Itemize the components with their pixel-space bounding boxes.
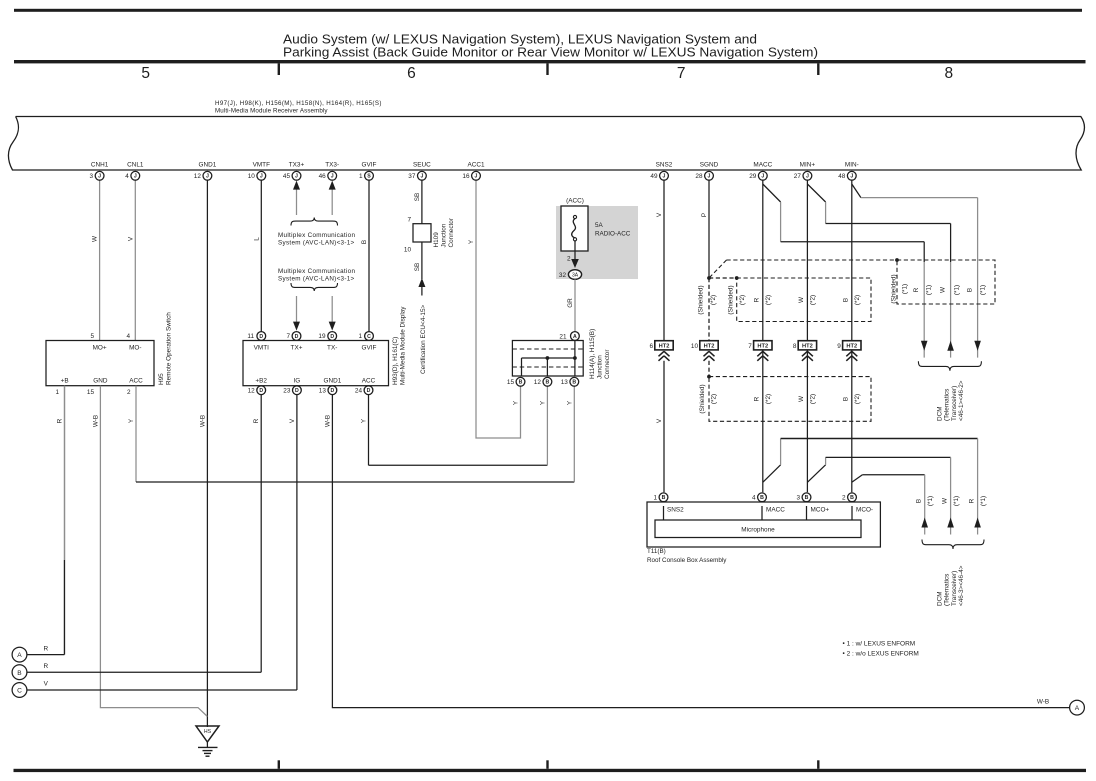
svg-text:SNS2: SNS2 bbox=[667, 507, 684, 514]
svg-text:B: B bbox=[805, 495, 809, 501]
svg-text:28: 28 bbox=[695, 173, 703, 180]
svg-text:(*1): (*1) bbox=[953, 496, 960, 506]
svg-text:MIN+: MIN+ bbox=[800, 162, 816, 169]
svg-text:(ACC): (ACC) bbox=[566, 198, 584, 205]
svg-text:TX3+: TX3+ bbox=[289, 162, 305, 169]
svg-text:System (AVC-LAN)<3-1>: System (AVC-LAN)<3-1> bbox=[278, 240, 355, 247]
svg-text:(*2): (*2) bbox=[739, 295, 746, 305]
svg-text:37: 37 bbox=[408, 173, 416, 180]
svg-text:24: 24 bbox=[355, 388, 363, 395]
svg-text:A: A bbox=[17, 652, 22, 659]
svg-text:B: B bbox=[843, 397, 850, 401]
svg-text:D: D bbox=[331, 388, 335, 394]
svg-text:Roof Console Box Assembly: Roof Console Box Assembly bbox=[647, 557, 727, 564]
svg-text:ACC: ACC bbox=[362, 378, 376, 385]
svg-text:D: D bbox=[259, 334, 263, 340]
svg-text:45: 45 bbox=[283, 173, 291, 180]
svg-text:W: W bbox=[942, 497, 949, 504]
svg-text:(*2): (*2) bbox=[810, 295, 817, 305]
svg-text:12: 12 bbox=[194, 173, 202, 180]
svg-text:J: J bbox=[663, 174, 666, 180]
svg-text:2: 2 bbox=[127, 389, 131, 396]
svg-text:GR: GR bbox=[567, 298, 574, 308]
svg-text:5A: 5A bbox=[595, 222, 604, 229]
svg-text:W: W bbox=[940, 286, 947, 293]
svg-text:D: D bbox=[330, 334, 334, 340]
svg-text:TX-: TX- bbox=[327, 345, 337, 352]
svg-text:(*2): (*2) bbox=[765, 394, 772, 404]
svg-text:(Telematics: (Telematics bbox=[944, 574, 951, 606]
svg-text:(*2): (*2) bbox=[854, 394, 861, 404]
svg-text:J: J bbox=[206, 174, 209, 180]
svg-text:Multiplex Communication: Multiplex Communication bbox=[278, 232, 355, 239]
svg-text:SNS2: SNS2 bbox=[656, 162, 673, 169]
svg-text:D: D bbox=[367, 388, 371, 394]
svg-text:V: V bbox=[289, 418, 296, 423]
svg-text:(*2): (*2) bbox=[765, 295, 772, 305]
svg-text:8: 8 bbox=[944, 65, 953, 82]
svg-text:Y: Y bbox=[539, 400, 546, 405]
svg-text:+B2: +B2 bbox=[255, 378, 267, 385]
svg-text:HT2: HT2 bbox=[704, 344, 715, 350]
svg-text:SB: SB bbox=[414, 193, 421, 202]
svg-text:D: D bbox=[295, 334, 299, 340]
svg-text:J: J bbox=[420, 174, 423, 180]
svg-text:1: 1 bbox=[653, 495, 657, 502]
svg-text:Transceiver): Transceiver) bbox=[951, 386, 958, 421]
svg-text:W: W bbox=[92, 235, 99, 242]
svg-text:27: 27 bbox=[794, 173, 802, 180]
svg-text:V: V bbox=[44, 680, 49, 687]
svg-text:2: 2 bbox=[842, 495, 846, 502]
svg-text:3A: 3A bbox=[572, 273, 579, 279]
svg-text:Transceiver): Transceiver) bbox=[951, 571, 958, 606]
svg-text:V: V bbox=[656, 418, 663, 423]
svg-text:(*1): (*1) bbox=[980, 285, 987, 295]
svg-text:7: 7 bbox=[407, 217, 411, 224]
svg-text:J: J bbox=[331, 174, 334, 180]
svg-text:29: 29 bbox=[749, 173, 757, 180]
svg-text:Y: Y bbox=[128, 418, 135, 423]
svg-text:J: J bbox=[850, 174, 853, 180]
svg-text:W-B: W-B bbox=[1037, 699, 1049, 706]
svg-text:6: 6 bbox=[649, 343, 653, 350]
svg-text:Multi-Media Module Receiver As: Multi-Media Module Receiver Assembly bbox=[215, 108, 328, 115]
svg-text:13: 13 bbox=[319, 388, 327, 395]
svg-text:W: W bbox=[798, 395, 805, 402]
svg-text:HT2: HT2 bbox=[757, 344, 768, 350]
svg-text:5: 5 bbox=[90, 333, 94, 340]
svg-text:GND1: GND1 bbox=[199, 162, 217, 169]
svg-text:32: 32 bbox=[559, 272, 567, 279]
svg-text:SGND: SGND bbox=[700, 162, 719, 169]
svg-text:(Telematics: (Telematics bbox=[944, 389, 951, 421]
svg-text:J: J bbox=[475, 174, 478, 180]
svg-text:J: J bbox=[761, 174, 764, 180]
svg-text:H114(A), H115(B): H114(A), H115(B) bbox=[589, 329, 596, 379]
svg-text:5: 5 bbox=[141, 65, 150, 82]
svg-text:23: 23 bbox=[283, 388, 291, 395]
svg-text:H93(D), H161(C): H93(D), H161(C) bbox=[392, 337, 399, 385]
svg-text:TX3-: TX3- bbox=[325, 162, 339, 169]
svg-text:J: J bbox=[806, 174, 809, 180]
svg-text:R: R bbox=[43, 663, 48, 670]
svg-text:R: R bbox=[754, 396, 761, 401]
svg-text:4: 4 bbox=[126, 333, 130, 340]
svg-text:HT2: HT2 bbox=[802, 344, 813, 350]
svg-text:(Shielded): (Shielded) bbox=[891, 274, 898, 303]
svg-text:<46-1><46-2>: <46-1><46-2> bbox=[958, 380, 965, 421]
svg-text:R: R bbox=[253, 418, 260, 423]
svg-text:GVIF: GVIF bbox=[362, 345, 377, 352]
svg-text:A: A bbox=[1075, 705, 1080, 712]
svg-text:R: R bbox=[754, 297, 761, 302]
svg-text:CNH1: CNH1 bbox=[91, 162, 109, 169]
svg-text:Connector: Connector bbox=[604, 349, 611, 379]
svg-text:A: A bbox=[573, 334, 577, 340]
svg-text:R: R bbox=[913, 287, 920, 292]
svg-text:Multiplex Communication: Multiplex Communication bbox=[278, 268, 355, 275]
svg-text:(Shielded): (Shielded) bbox=[698, 285, 705, 314]
svg-text:TX+: TX+ bbox=[291, 345, 303, 352]
svg-text:Parking Assist (Back Guide Mon: Parking Assist (Back Guide Monitor or Re… bbox=[283, 45, 818, 60]
svg-text:46: 46 bbox=[319, 173, 327, 180]
svg-text:Junction: Junction bbox=[597, 355, 604, 379]
svg-text:MACC: MACC bbox=[753, 162, 772, 169]
svg-text:11: 11 bbox=[247, 333, 254, 340]
svg-text:J: J bbox=[98, 174, 101, 180]
svg-text:B: B bbox=[17, 670, 22, 677]
svg-text:(*1): (*1) bbox=[954, 285, 961, 295]
svg-text:D: D bbox=[259, 388, 263, 394]
svg-text:HS: HS bbox=[204, 729, 212, 735]
svg-text:2: 2 bbox=[567, 256, 571, 263]
svg-text:GND: GND bbox=[93, 378, 108, 385]
svg-text:CNL1: CNL1 bbox=[127, 162, 144, 169]
svg-text:(*2): (*2) bbox=[854, 295, 861, 305]
svg-text:R: R bbox=[969, 498, 976, 503]
svg-text:DCM: DCM bbox=[937, 406, 944, 421]
svg-text:• 2 : w/o LEXUS ENFORM: • 2 : w/o LEXUS ENFORM bbox=[843, 651, 919, 658]
svg-text:(*1): (*1) bbox=[902, 284, 909, 294]
svg-text:3: 3 bbox=[90, 173, 94, 180]
svg-text:W-B: W-B bbox=[324, 415, 331, 427]
svg-text:(*2): (*2) bbox=[710, 295, 717, 305]
svg-text:12: 12 bbox=[534, 379, 542, 386]
svg-text:1: 1 bbox=[359, 173, 363, 180]
svg-text:Y: Y bbox=[513, 400, 520, 405]
svg-text:9: 9 bbox=[837, 343, 841, 350]
svg-text:RADIO-ACC: RADIO-ACC bbox=[595, 231, 631, 238]
svg-text:HT2: HT2 bbox=[659, 344, 670, 350]
svg-text:Y: Y bbox=[566, 400, 573, 405]
svg-text:(*1): (*1) bbox=[927, 496, 934, 506]
svg-text:J: J bbox=[295, 174, 298, 180]
svg-text:1: 1 bbox=[55, 389, 59, 396]
svg-text:J: J bbox=[260, 174, 263, 180]
svg-text:Y: Y bbox=[468, 239, 475, 244]
svg-text:R: R bbox=[43, 646, 48, 653]
svg-text:4: 4 bbox=[125, 173, 129, 180]
svg-text:J: J bbox=[134, 174, 137, 180]
svg-text:MACC: MACC bbox=[766, 507, 785, 514]
svg-text:W: W bbox=[798, 296, 805, 303]
svg-text:16: 16 bbox=[462, 173, 470, 180]
svg-text:15: 15 bbox=[87, 389, 95, 396]
svg-text:B: B bbox=[916, 499, 923, 503]
svg-text:MIN-: MIN- bbox=[845, 162, 859, 169]
svg-text:H95: H95 bbox=[158, 373, 165, 385]
svg-text:Multi-Media Module Display: Multi-Media Module Display bbox=[400, 306, 407, 385]
svg-text:V: V bbox=[127, 236, 134, 241]
svg-text:6: 6 bbox=[407, 65, 416, 82]
svg-text:49: 49 bbox=[650, 173, 658, 180]
svg-text:Microphone: Microphone bbox=[741, 527, 775, 534]
svg-text:10: 10 bbox=[248, 173, 256, 180]
svg-text:B: B bbox=[967, 288, 974, 292]
svg-text:1: 1 bbox=[358, 333, 362, 340]
svg-text:B: B bbox=[361, 240, 368, 244]
svg-text:8: 8 bbox=[793, 343, 797, 350]
svg-text:7: 7 bbox=[748, 343, 752, 350]
svg-text:7: 7 bbox=[677, 65, 686, 82]
svg-text:(*2): (*2) bbox=[711, 394, 718, 404]
svg-text:(*1): (*1) bbox=[980, 496, 987, 506]
svg-text:15: 15 bbox=[507, 379, 515, 386]
svg-text:(Shielded): (Shielded) bbox=[728, 285, 735, 314]
svg-text:System (AVC-LAN)<3-1>: System (AVC-LAN)<3-1> bbox=[278, 276, 355, 283]
svg-text:Remote Operation Switch: Remote Operation Switch bbox=[166, 312, 173, 385]
svg-text:T11(B): T11(B) bbox=[647, 548, 666, 555]
svg-text:V: V bbox=[656, 212, 663, 217]
svg-text:SB: SB bbox=[414, 263, 421, 272]
svg-text:H109: H109 bbox=[433, 232, 440, 248]
svg-text:• 1 : w/ LEXUS ENFORM: • 1 : w/ LEXUS ENFORM bbox=[843, 641, 916, 648]
svg-text:Junction: Junction bbox=[441, 223, 448, 247]
svg-text:HT2: HT2 bbox=[846, 344, 857, 350]
svg-text:DCM: DCM bbox=[937, 591, 944, 606]
svg-text:H97(J), H98(K), H156(M), H158(: H97(J), H98(K), H156(M), H158(N), H164(R… bbox=[215, 100, 382, 107]
svg-text:W-B: W-B bbox=[92, 415, 99, 427]
svg-text:D: D bbox=[295, 388, 299, 394]
svg-text:Certification ECU<4-15>: Certification ECU<4-15> bbox=[420, 304, 427, 374]
svg-text:C: C bbox=[17, 688, 22, 695]
svg-text:12: 12 bbox=[248, 388, 256, 395]
svg-text:7: 7 bbox=[286, 333, 290, 340]
svg-text:Y: Y bbox=[361, 418, 368, 423]
svg-text:B: B bbox=[760, 495, 764, 501]
svg-text:13: 13 bbox=[561, 379, 569, 386]
svg-text:4: 4 bbox=[752, 495, 756, 502]
svg-text:GVIF: GVIF bbox=[362, 162, 377, 169]
svg-text:B: B bbox=[519, 380, 523, 386]
svg-text:(*2): (*2) bbox=[810, 394, 817, 404]
svg-text:C: C bbox=[367, 334, 371, 340]
svg-text:B: B bbox=[546, 380, 550, 386]
svg-text:ACC: ACC bbox=[129, 378, 143, 385]
svg-text:ACC1: ACC1 bbox=[467, 162, 484, 169]
svg-text:Connector: Connector bbox=[448, 217, 455, 247]
svg-text:10: 10 bbox=[404, 247, 412, 254]
svg-text:B: B bbox=[843, 298, 850, 302]
svg-text:VMTI: VMTI bbox=[254, 345, 269, 352]
svg-text:B: B bbox=[850, 495, 854, 501]
svg-text:L: L bbox=[253, 237, 260, 241]
svg-text:+B: +B bbox=[61, 378, 69, 385]
svg-text:IG: IG bbox=[294, 378, 301, 385]
svg-text:VMTF: VMTF bbox=[253, 162, 270, 169]
svg-text:J: J bbox=[708, 174, 711, 180]
svg-text:MCO-: MCO- bbox=[856, 507, 873, 514]
svg-text:R: R bbox=[57, 418, 64, 423]
svg-text:MCO+: MCO+ bbox=[811, 507, 830, 514]
svg-text:(Shielded): (Shielded) bbox=[699, 384, 706, 413]
svg-text:B: B bbox=[662, 495, 666, 501]
svg-text:19: 19 bbox=[318, 333, 326, 340]
svg-text:21: 21 bbox=[559, 334, 567, 341]
svg-text:(*1): (*1) bbox=[926, 285, 933, 295]
svg-text:MO+: MO+ bbox=[93, 345, 107, 352]
svg-text:SEUC: SEUC bbox=[413, 162, 431, 169]
svg-text:10: 10 bbox=[691, 343, 699, 350]
svg-text:<46-3><46-4>: <46-3><46-4> bbox=[958, 565, 965, 606]
svg-text:48: 48 bbox=[838, 173, 846, 180]
svg-text:GND1: GND1 bbox=[324, 378, 342, 385]
svg-text:P: P bbox=[701, 213, 708, 217]
svg-text:S: S bbox=[367, 174, 371, 180]
svg-text:B: B bbox=[572, 380, 576, 386]
svg-text:MO-: MO- bbox=[129, 345, 141, 352]
svg-text:W-B: W-B bbox=[199, 415, 206, 427]
svg-text:3: 3 bbox=[796, 495, 800, 502]
